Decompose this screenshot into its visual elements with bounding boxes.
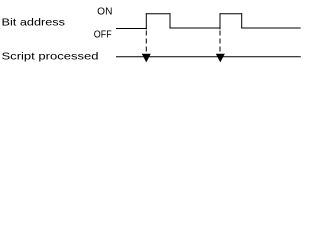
wire rising edge pulse 2	[219, 13, 221, 29]
wire top segment pulse 2 (ON level)	[220, 13, 243, 15]
arrow marker 2	[216, 54, 225, 63]
dashed timing line 1	[145, 31, 147, 54]
svg-text:ON: ON	[97, 7, 112, 18]
wire baseline segment B (between pulses)	[170, 27, 221, 29]
arrow marker 1	[142, 54, 151, 63]
svg-text:OFF: OFF	[94, 29, 112, 40]
wire baseline segment C (after pulse 2)	[241, 27, 300, 29]
wire falling edge pulse 1	[169, 13, 171, 28]
wire falling edge pulse 2	[241, 13, 243, 28]
wire top segment pulse 1 (ON level)	[146, 13, 171, 15]
wire script processed timeline	[116, 56, 301, 58]
wire rising edge pulse 1	[145, 13, 147, 29]
svg-text:Script processed: Script processed	[2, 50, 99, 62]
svg-text:Bit address: Bit address	[2, 16, 66, 28]
wire baseline segment A (OFF level, before pulse 1)	[116, 28, 147, 30]
dashed timing line 2	[219, 31, 221, 54]
